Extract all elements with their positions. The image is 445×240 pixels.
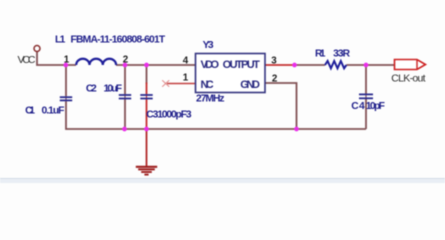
svg-text:CLK-out: CLK-out [391,73,425,85]
svg-text:VDO: VDO [201,59,220,71]
svg-text:GND: GND [240,79,260,91]
svg-text:C1: C1 [25,105,35,116]
svg-text:C4: C4 [351,101,365,112]
svg-text:2: 2 [272,73,278,84]
svg-text:0.1uF: 0.1uF [42,105,65,116]
svg-text:VCC: VCC [18,54,36,66]
svg-text:C2: C2 [86,84,97,95]
svg-text:1: 1 [183,72,189,83]
svg-text:2: 2 [123,54,129,65]
svg-text:Y3: Y3 [203,40,214,51]
svg-text:R1: R1 [315,48,326,59]
svg-text:3: 3 [271,55,277,66]
svg-text:10pF: 10pF [366,101,385,112]
svg-text:10uF: 10uF [104,84,123,95]
svg-text:FBMA-11-160808-601T: FBMA-11-160808-601T [71,35,166,46]
svg-text:L1: L1 [55,35,66,46]
svg-text:4: 4 [183,56,189,67]
svg-text:OUTPUT: OUTPUT [223,59,261,71]
svg-text:27MHz: 27MHz [196,93,225,104]
svg-text:1: 1 [64,54,70,65]
svg-text:NC: NC [201,79,214,91]
svg-text:C31000pF3: C31000pF3 [146,109,192,120]
svg-text:33R: 33R [333,48,351,59]
